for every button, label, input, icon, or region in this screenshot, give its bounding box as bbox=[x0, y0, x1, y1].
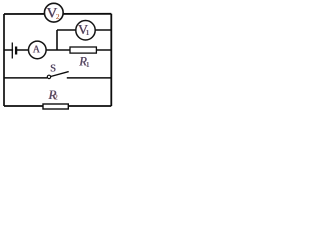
wire right edge bbox=[110, 14, 112, 106]
svg-text:A: A bbox=[33, 44, 41, 55]
ammeter A bbox=[29, 41, 47, 59]
wire V1 row bbox=[57, 29, 111, 31]
wire left edge bbox=[3, 14, 5, 106]
node junction of V1 branch bbox=[56, 30, 58, 50]
svg-text:S: S bbox=[50, 64, 56, 75]
svg-text:2: 2 bbox=[55, 94, 59, 102]
svg-text:1: 1 bbox=[86, 61, 90, 69]
voltmeter V2 bbox=[44, 3, 63, 22]
voltmeter V1 bbox=[76, 21, 95, 40]
resistor R2 bbox=[43, 87, 68, 109]
wire middle row bbox=[4, 49, 111, 51]
switch S bbox=[4, 64, 111, 79]
wire bottom bbox=[4, 105, 111, 107]
svg-text:1: 1 bbox=[86, 28, 90, 37]
svg-text:2: 2 bbox=[56, 12, 60, 21]
battery B1 bbox=[12, 43, 16, 59]
resistor R1 bbox=[70, 47, 96, 69]
wire top bbox=[4, 13, 111, 15]
